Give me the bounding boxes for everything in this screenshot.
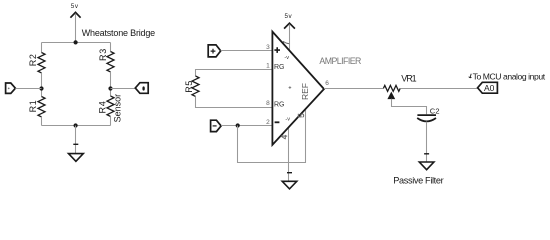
svg-text:R1: R1 (28, 99, 38, 112)
terminal plus sign (211, 49, 216, 54)
wire R3 to mid-right node (110, 72, 112, 96)
node mid-right junction (108, 86, 112, 90)
resistor R5 (192, 76, 199, 96)
wire left terminal to mid-left node (15, 88, 41, 90)
svg-text:3: 3 (266, 44, 270, 51)
wire right branch top (110, 43, 112, 52)
svg-text:5: 5 (297, 113, 306, 118)
op-amp U1 triangle body (272, 32, 324, 145)
svg-text:1: 1 (266, 62, 270, 69)
svg-text:Sensor: Sensor (112, 94, 122, 123)
node pin 2 junction (236, 123, 240, 127)
wire pin 4 down to ground (288, 127, 290, 181)
wire R1 to bottom rail (41, 117, 43, 126)
wire wiper to capacitor C2 (392, 99, 427, 114)
resistor R2 (38, 53, 45, 73)
op-amp small plus marking near REF (289, 86, 292, 89)
wire pin 6 output to VR1 (324, 88, 383, 90)
ground passive filter triangle (419, 162, 434, 170)
svg-text:Wheatstone Bridge: Wheatstone Bridge (82, 28, 156, 38)
node bottom junction (74, 123, 78, 127)
svg-text:5v: 5v (285, 13, 293, 20)
wire R5 to pin 8 (196, 97, 273, 108)
svg-text:8: 8 (266, 100, 270, 107)
terminal A0 flag (478, 82, 498, 93)
wire pin 2 (221, 125, 272, 127)
wire mid-right node to right terminal (111, 88, 136, 90)
power symbol 5V arrow (bridge) (70, 12, 80, 17)
resistor R4 (sensor) (107, 96, 114, 116)
svg-text:2: 2 (266, 119, 270, 126)
small arrow marker before label (469, 74, 472, 78)
svg-text:R3: R3 (98, 48, 108, 61)
resistor R3 (107, 52, 114, 72)
svg-text:5v: 5v (71, 3, 79, 10)
svg-text:-v: -v (285, 116, 290, 122)
svg-text:RG: RG (274, 101, 285, 108)
node mid-left junction (39, 86, 43, 90)
svg-text:RG: RG (274, 64, 285, 71)
terminal amp noninverting input flag (208, 45, 221, 57)
svg-text:C2: C2 (430, 106, 440, 115)
wire R4 to bottom rail (110, 117, 112, 126)
power symbol 5V arrow (amp) (284, 23, 295, 28)
svg-text:4: 4 (280, 134, 289, 139)
wire C2 to ground (426, 122, 428, 162)
wire VR1 to A0 terminal (400, 88, 477, 90)
node top junction (74, 40, 78, 44)
svg-text:A0: A0 (484, 83, 495, 93)
wire pin2 node down along bottom up to pin 5 (238, 109, 306, 163)
terminal bridge left flag dot (8, 88, 10, 90)
svg-text:REF: REF (300, 83, 310, 100)
svg-text:-v: -v (284, 55, 289, 61)
wire bridge top rail (42, 42, 111, 44)
svg-text:R4: R4 (97, 101, 107, 114)
svg-text:VR1: VR1 (401, 73, 417, 83)
wire 5V stem to bridge top node (75, 14, 77, 43)
terminal bridge right flag dot (142, 86, 144, 90)
wire pin 1 to R5 (196, 70, 273, 77)
wire bridge bottom rail (42, 125, 111, 127)
svg-text:R5: R5 (184, 80, 194, 92)
wire bottom node to ground (75, 126, 77, 154)
terminal amp inverting input flag (211, 120, 222, 131)
svg-text:To MCU analog input: To MCU analog input (473, 71, 546, 81)
terminal minus sign (213, 125, 217, 127)
ground bridge tick (73, 143, 78, 145)
wire left branch top (41, 43, 43, 53)
wire pin 7 supply (289, 24, 291, 51)
potentiometer VR1 wiper arrow (388, 92, 395, 99)
ground bridge triangle (69, 154, 84, 162)
svg-text:6: 6 (325, 80, 329, 87)
ground passive filter tick (424, 153, 429, 155)
op-amp plus input marking (274, 47, 280, 53)
op-amp minus input marking (275, 121, 280, 123)
wire R2 to mid-left node (41, 73, 43, 97)
svg-text:R2: R2 (28, 53, 38, 66)
ground amplifier tick (287, 172, 292, 174)
capacitor C2 curved plate (417, 118, 436, 121)
potentiometer VR1 body (383, 85, 400, 91)
ground amplifier triangle (282, 181, 297, 189)
svg-text:AMPLIFIER: AMPLIFIER (319, 56, 361, 66)
svg-text:Passive Filter: Passive Filter (393, 176, 444, 186)
resistor R1 (38, 97, 45, 117)
wire pin 3 (221, 50, 272, 52)
capacitor C2 top plate (417, 114, 436, 116)
terminal bridge right flag (135, 83, 148, 94)
terminal bridge left flag (6, 83, 16, 93)
